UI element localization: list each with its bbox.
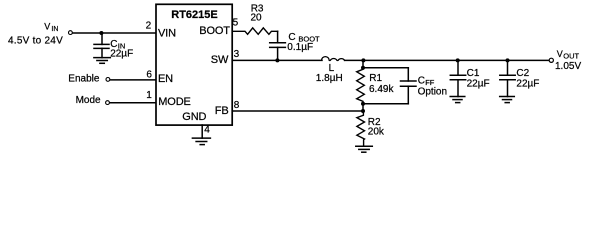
wire FB pin 8 to divider <box>232 110 363 112</box>
capacitor CFF <box>401 68 417 104</box>
node junction C2 <box>506 58 510 62</box>
svg-text:GND: GND <box>182 111 206 123</box>
wire SW pin 3 to inductor <box>232 59 322 61</box>
svg-text:V: V <box>44 22 50 32</box>
ground (C2) <box>500 97 515 103</box>
output terminal VOUT <box>549 58 553 62</box>
ground (R2) <box>356 146 373 152</box>
svg-text:VIN: VIN <box>158 28 176 40</box>
node junction FB <box>361 109 365 113</box>
wire VOUT node down to R1 top <box>362 60 364 67</box>
svg-text:OUT: OUT <box>563 52 579 61</box>
svg-text:Option: Option <box>418 87 447 98</box>
wire CFF bottom branch <box>363 103 408 105</box>
svg-text:BOOT: BOOT <box>199 25 230 37</box>
ground (CIN) <box>94 58 110 64</box>
svg-text:4: 4 <box>204 125 210 136</box>
input terminal VIN <box>69 31 73 35</box>
capacitor C1 <box>450 60 465 96</box>
svg-text:4.5V to 24V: 4.5V to 24V <box>8 36 63 47</box>
wire VOUT line <box>345 59 549 61</box>
svg-text:EN: EN <box>158 73 173 85</box>
svg-text:22µF: 22µF <box>110 49 133 60</box>
svg-text:C: C <box>418 76 425 87</box>
inductor L <box>322 57 345 61</box>
node junction R1 bottom / CFF bottom <box>361 102 365 106</box>
resistor R1 <box>357 68 365 104</box>
resistor R3 (BOOT) <box>232 28 277 34</box>
svg-text:0.1µF: 0.1µF <box>287 42 313 53</box>
node junction R1/VOUT <box>361 58 365 62</box>
capacitor C2 <box>500 60 515 96</box>
svg-text:SW: SW <box>211 54 229 66</box>
node junction R1 top / CFF top <box>361 66 365 70</box>
svg-text:IN: IN <box>51 26 58 33</box>
svg-text:RT6215E: RT6215E <box>171 9 217 21</box>
svg-text:20: 20 <box>251 13 263 24</box>
svg-text:V: V <box>557 49 563 59</box>
wire Mode to pin 1 <box>110 102 155 104</box>
svg-text:Mode: Mode <box>76 95 101 106</box>
svg-text:6.49k: 6.49k <box>369 84 394 95</box>
svg-text:8: 8 <box>234 100 240 111</box>
wire R1 bottom to FB node <box>362 104 364 111</box>
capacitor CBOOT <box>270 31 286 60</box>
input terminal Enable <box>106 78 110 82</box>
node junction C1 <box>456 58 460 62</box>
svg-text:5: 5 <box>233 17 239 28</box>
svg-text:1.05V: 1.05V <box>555 61 581 72</box>
ground (GND pin 4) <box>192 125 210 145</box>
node junction CBOOT/SW <box>275 58 279 62</box>
capacitor CIN <box>94 33 109 58</box>
wire VIN terminal to pin 2 <box>73 32 156 34</box>
svg-text:Enable: Enable <box>68 73 100 84</box>
input terminal Mode <box>106 101 110 105</box>
svg-text:FB: FB <box>215 105 229 117</box>
svg-text:20k: 20k <box>368 127 385 138</box>
resistor R2 <box>357 111 365 146</box>
svg-text:22µF: 22µF <box>516 78 539 89</box>
svg-text:2: 2 <box>146 21 152 32</box>
svg-text:1.8µH: 1.8µH <box>316 73 343 84</box>
svg-text:R1: R1 <box>369 73 382 84</box>
svg-text:6: 6 <box>146 70 152 81</box>
svg-text:FF: FF <box>425 78 435 87</box>
wire Enable to pin 6 <box>110 79 155 81</box>
svg-text:1: 1 <box>146 90 152 101</box>
IC U1 RT6215E box <box>156 4 232 125</box>
svg-text:MODE: MODE <box>158 96 190 108</box>
ground (C1) <box>450 97 465 103</box>
svg-text:3: 3 <box>234 49 240 60</box>
svg-text:22µF: 22µF <box>467 78 490 89</box>
wire CFF top branch <box>363 67 408 69</box>
node junction VIN/CIN <box>99 31 103 35</box>
